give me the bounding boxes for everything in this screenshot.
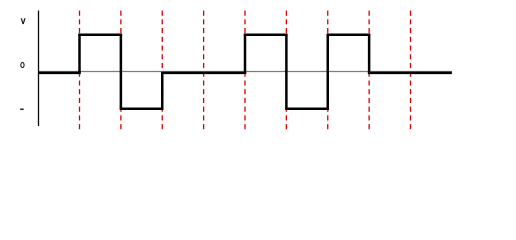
waveform rising edge -V to 0 bbox=[161, 73, 164, 109]
bit boundary 1 (red dashed line) bbox=[79, 11, 81, 131]
bit boundary 2 (red dashed line) bbox=[120, 11, 122, 131]
bit boundary 5 (red dashed line) bbox=[244, 11, 246, 131]
label - (negative level) bbox=[20, 109, 23, 111]
zero reference line (thin gray) bbox=[39, 71, 452, 73]
bit boundary 7 (red dashed line) bbox=[327, 11, 329, 131]
bit boundary 3 (red dashed line) bbox=[161, 11, 163, 131]
bit boundary 8 (red dashed line) bbox=[368, 11, 370, 131]
bit boundary 6 (red dashed line) bbox=[285, 11, 287, 131]
waveform segment: -V bit 3 bbox=[120, 108, 164, 111]
waveform segment: 0-level bits 4-5 bbox=[161, 72, 246, 75]
waveform rising edge -V to +V bbox=[327, 35, 330, 109]
waveform segment: +V bit 6 bbox=[244, 33, 288, 36]
waveform rising edge 0 to +V bbox=[78, 35, 81, 73]
waveform falling edge +V to -V bbox=[120, 35, 123, 109]
waveform segment: 0-level bits 9-10 bbox=[368, 72, 452, 75]
waveform segment: -V bit 7 bbox=[285, 108, 329, 111]
waveform segment: +V bit 2 bbox=[78, 33, 122, 36]
waveform rising edge 0 to +V (second) bbox=[244, 35, 247, 73]
label V (+V level) bbox=[21, 18, 26, 24]
waveform segment: 0-level bit 1 bbox=[39, 72, 81, 75]
voltage axis (vertical) bbox=[38, 11, 40, 127]
label 0 (zero level) bbox=[21, 62, 24, 67]
waveform segment: +V bit 8 bbox=[327, 33, 371, 36]
bit boundary 4 (red dashed line) bbox=[203, 11, 205, 131]
waveform falling edge +V to 0 bbox=[368, 35, 371, 73]
bit boundary 9 (red dashed line) bbox=[410, 11, 412, 131]
waveform falling edge +V to -V (second) bbox=[285, 35, 288, 109]
